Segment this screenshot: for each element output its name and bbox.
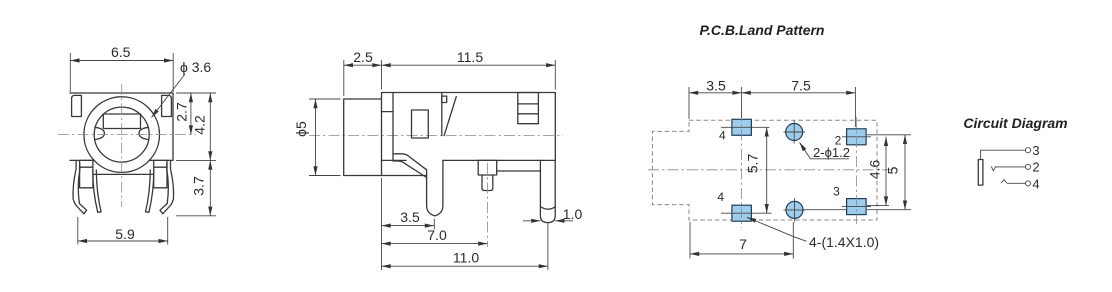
dimension 7.0 bottom [382,243,488,245]
right pads centerline vertical [855,117,857,224]
svg-text:3: 3 [1032,143,1039,158]
left leg plate [80,160,93,187]
left outer claw [73,160,87,213]
svg-text:5.9: 5.9 [115,226,135,242]
front leg [427,160,443,216]
label 4-(1.4X1.0) with leader [747,217,807,241]
dimension 6.5 top [70,53,173,92]
dimension 11.0 bottom [382,223,548,270]
hole circle bottom [786,201,803,218]
pad crosshair lines [721,127,911,213]
top-left tab [72,95,82,116]
left inner prong [93,170,101,212]
side view centerline [309,135,563,137]
svg-text:5.7: 5.7 [745,154,761,174]
body outline [382,93,556,176]
barrel joint lines [382,93,394,161]
label phi3.6 with leader [152,74,186,118]
svg-text:ϕ5: ϕ5 [293,121,309,137]
right inner prong [146,170,154,212]
barrel outer circle [84,97,160,173]
svg-text:4: 4 [717,190,724,204]
dimension 3.5 bottom [382,178,435,270]
pad 2 [847,129,867,145]
svg-text:3: 3 [833,185,840,199]
lower lip right [497,170,541,172]
tip contact window [103,114,140,129]
middle pin centerline [486,163,488,247]
dimension 3.5 pcb [689,87,742,119]
svg-text:7.0: 7.0 [427,227,447,243]
barrel [344,99,382,176]
front view vertical centerline [121,84,123,207]
svg-text:4: 4 [719,129,726,143]
ring contact symbol [991,166,996,170]
right notch [139,127,149,139]
side window [412,110,429,138]
left pads centerline vertical [741,110,743,228]
middle shield pin [478,160,497,190]
front view body [70,93,173,160]
dimension 2.7 right [176,93,216,135]
dimension 5.7 pcb [766,127,768,213]
svg-text:3.7: 3.7 [191,176,207,196]
svg-text:3.5: 3.5 [400,209,420,225]
svg-text:7: 7 [739,236,747,252]
svg-text:4.2: 4.2 [192,115,208,135]
svg-text:Circuit Diagram: Circuit Diagram [963,115,1067,131]
svg-text:2.5: 2.5 [353,49,373,65]
dimension 5 pcb [904,135,906,210]
tip spring arm [393,154,427,178]
circle crosshairs [784,121,806,222]
plug sleeve body [978,160,983,186]
wire to terminal 2 [996,166,1026,168]
pad 4 bottom [732,205,752,221]
dimension 2.5 top [344,60,382,96]
wire to terminal 3 [981,150,1026,159]
front view horizontal centerline [58,134,196,136]
svg-text:4-(1.4X1.0): 4-(1.4X1.0) [809,234,879,250]
dimension 4.2 right [176,93,216,160]
lower lip left [344,175,427,177]
svg-text:6.5: 6.5 [111,44,131,60]
body cavity floor [382,159,407,161]
terminal 2 circle [1025,164,1030,169]
dimension 3.7 right [176,160,216,215]
terminal 3 circle [1025,148,1030,153]
svg-text:P.C.B.Land Pattern: P.C.B.Land Pattern [700,22,825,38]
svg-text:1.0: 1.0 [563,206,583,222]
svg-text:7.5: 7.5 [791,77,811,93]
tip contact symbol [1001,180,1007,183]
terminal 4 circle [1025,181,1030,186]
dimension 1.0 right [523,220,573,222]
dimension 7 pcb [690,222,793,259]
top-right tab [162,95,172,116]
svg-text:11.0: 11.0 [453,250,479,266]
bottom shell line [93,173,152,175]
svg-text:4.6: 4.6 [867,160,883,180]
svg-text:ϕ 3.6: ϕ 3.6 [180,59,211,75]
dimension 4.6 pcb [885,137,887,206]
label 2-phi1.2 with leader [800,142,849,158]
PCB dashed outline [652,120,877,220]
svg-text:2-ϕ1.2: 2-ϕ1.2 [813,145,850,160]
dimension 7.5 pcb [742,87,856,127]
wire to terminal 4 [1007,182,1026,184]
dimension 5.9 bottom [78,217,168,245]
pad 4 top [732,119,752,135]
dimension phi5 left [309,99,341,176]
right leg [540,160,555,222]
hole circle top [786,124,803,141]
svg-text:11.5: 11.5 [457,49,483,65]
dimension 11.5 top [382,60,556,90]
svg-text:5: 5 [884,166,900,174]
pad 3 [847,199,867,215]
right outer claw [160,160,174,213]
svg-text:4: 4 [1032,176,1039,191]
PCB horizontal centerline [648,169,898,171]
svg-text:3.5: 3.5 [706,77,726,93]
switch contact stack (top right) [518,93,539,124]
left notch [95,127,105,139]
hole inner circle [94,107,149,162]
right leg plate [154,160,167,187]
svg-text:2: 2 [1032,160,1039,175]
svg-text:2.7: 2.7 [174,102,190,122]
internal contact line [442,93,457,136]
